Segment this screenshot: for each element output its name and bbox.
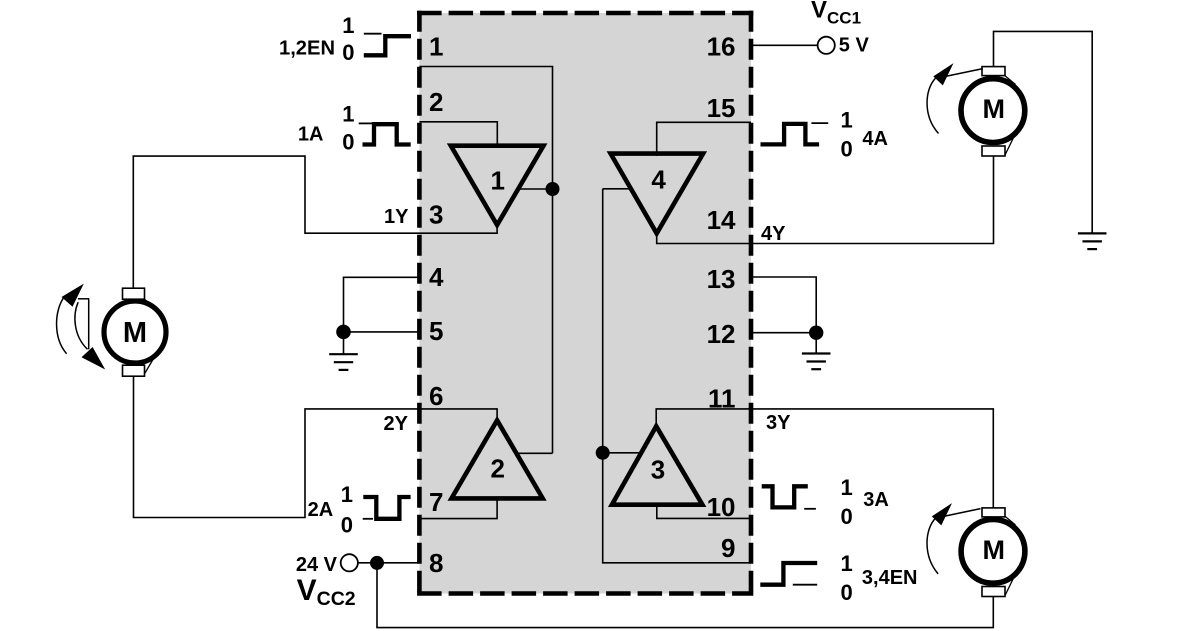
svg-text:M: M <box>983 94 1006 124</box>
svg-text:1: 1 <box>429 32 443 62</box>
svg-text:6: 6 <box>429 381 443 411</box>
svg-text:24 V: 24 V <box>296 554 338 576</box>
svg-text:12: 12 <box>707 319 736 349</box>
svg-text:4Y: 4Y <box>761 223 786 245</box>
svg-text:VCC1: VCC1 <box>811 0 861 27</box>
svg-text:M: M <box>983 535 1006 565</box>
svg-text:2: 2 <box>490 453 504 483</box>
svg-text:15: 15 <box>707 93 736 123</box>
svg-text:3A: 3A <box>863 489 889 511</box>
svg-text:16: 16 <box>707 32 736 62</box>
svg-text:3Y: 3Y <box>766 412 791 434</box>
svg-text:3: 3 <box>651 455 665 485</box>
svg-text:2: 2 <box>429 87 443 117</box>
svg-text:3: 3 <box>429 200 443 230</box>
svg-text:0: 0 <box>841 137 853 162</box>
svg-text:3,4EN: 3,4EN <box>862 567 918 589</box>
svg-text:M: M <box>123 317 147 349</box>
svg-text:1: 1 <box>342 102 354 127</box>
svg-text:5: 5 <box>429 316 443 346</box>
svg-text:4A: 4A <box>862 128 888 150</box>
svg-text:4: 4 <box>429 262 444 292</box>
svg-text:4: 4 <box>651 164 666 194</box>
svg-text:1: 1 <box>341 482 353 507</box>
svg-text:0: 0 <box>342 40 354 65</box>
svg-text:2A: 2A <box>308 499 334 521</box>
svg-text:14: 14 <box>707 205 736 235</box>
svg-text:1: 1 <box>841 551 853 576</box>
svg-text:0: 0 <box>341 513 353 538</box>
svg-text:7: 7 <box>429 487 443 517</box>
svg-text:1: 1 <box>841 475 853 500</box>
svg-text:1: 1 <box>490 166 504 196</box>
svg-text:1: 1 <box>841 108 853 133</box>
svg-text:0: 0 <box>841 504 853 529</box>
svg-text:5 V: 5 V <box>839 35 870 57</box>
svg-text:13: 13 <box>707 264 736 294</box>
svg-text:8: 8 <box>429 548 443 578</box>
svg-text:11: 11 <box>708 384 736 414</box>
svg-text:2Y: 2Y <box>384 413 409 435</box>
svg-text:1,2EN: 1,2EN <box>279 38 335 60</box>
svg-text:1: 1 <box>342 13 354 38</box>
svg-text:1A: 1A <box>298 124 324 146</box>
svg-text:10: 10 <box>707 492 736 522</box>
svg-text:VCC2: VCC2 <box>297 574 356 610</box>
svg-text:0: 0 <box>841 580 853 605</box>
svg-text:1Y: 1Y <box>384 206 409 228</box>
svg-text:9: 9 <box>721 533 735 563</box>
svg-text:0: 0 <box>342 130 354 155</box>
